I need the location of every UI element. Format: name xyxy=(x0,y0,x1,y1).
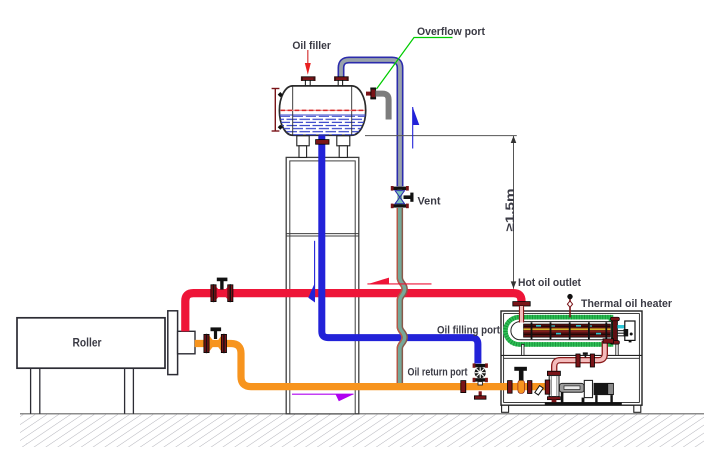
coil baffles xyxy=(531,322,608,339)
pump assembly xyxy=(545,371,622,405)
svg-text:Vent: Vent xyxy=(418,195,441,207)
motor xyxy=(594,383,614,395)
control box xyxy=(624,321,635,342)
heater coil xyxy=(524,324,611,337)
pump inlet top flange xyxy=(547,371,560,375)
heater inlet flange xyxy=(513,302,530,306)
svg-text:Hot oil outlet: Hot oil outlet xyxy=(518,277,581,289)
tank seams xyxy=(292,86,294,135)
orange valve near roller xyxy=(204,327,227,353)
pump vertical casing xyxy=(549,376,559,397)
red pipe valve xyxy=(211,278,233,303)
vent/overflow pipe from tank top (blue outline, gray core) xyxy=(341,60,400,186)
roller body xyxy=(17,311,195,414)
red hot-oil pipe xyxy=(185,293,521,331)
wavy drain pipe below vent valve (brown outline, teal core) xyxy=(397,208,405,386)
ground hatching xyxy=(20,414,704,447)
svg-text:Thermal oil heater: Thermal oil heater xyxy=(581,298,673,310)
vessel support posts xyxy=(522,344,524,355)
heater tube sheet xyxy=(611,317,620,344)
overflow port stub xyxy=(366,92,371,96)
orange pipe flanges inside heater frame xyxy=(508,380,550,394)
pump horizontal body xyxy=(560,383,585,392)
svg-text:Roller: Roller xyxy=(73,337,102,350)
blue down arrow in tower xyxy=(308,241,315,303)
heater vessel insulation (green) xyxy=(505,317,611,344)
level gauge xyxy=(272,89,283,132)
heater vessel shell xyxy=(511,322,612,340)
red flow arrow (left) xyxy=(367,278,431,285)
svg-text:Overflow port: Overflow port xyxy=(417,26,485,38)
tank support left xyxy=(297,136,309,158)
overflow gooseneck pipe (gray) xyxy=(376,94,389,120)
svg-text:≥1.5m: ≥1.5m xyxy=(503,188,517,231)
mid rail xyxy=(501,354,642,356)
sight glass on orange pipe xyxy=(535,386,543,395)
tank top nozzle left (oil filler) xyxy=(301,76,316,86)
vent valve xyxy=(391,186,414,208)
blue up arrow at vent pipe xyxy=(413,107,420,149)
svg-text:Oil filling port: Oil filling port xyxy=(437,325,500,337)
heater inlet pink pipe xyxy=(519,306,524,323)
green leader to overflow port xyxy=(377,38,453,90)
purple flow arrow (right) xyxy=(292,394,354,401)
expansion tank shell xyxy=(278,86,368,136)
element pins (cyan) xyxy=(617,325,626,328)
oil level line (red) xyxy=(281,109,366,111)
dimension line >=1.5m xyxy=(513,136,515,289)
pink pipe flanges xyxy=(576,352,595,367)
oil filler arrow (red) xyxy=(305,50,311,75)
pump supports xyxy=(561,392,564,403)
coupling plate xyxy=(584,380,592,397)
tank bottom flange xyxy=(316,140,329,145)
dimension reference line (tank bottom level) xyxy=(365,135,517,137)
svg-text:Oil return port: Oil return port xyxy=(408,367,468,379)
pump bottom flange xyxy=(547,397,560,400)
tank top nozzle right (to overflow pipe) xyxy=(334,76,349,86)
ground line xyxy=(20,413,704,415)
roller end disc xyxy=(168,311,178,375)
baseplate xyxy=(545,402,622,405)
flange on orange pipe left of filling valve xyxy=(461,381,466,393)
roller legs xyxy=(30,368,32,414)
tower (tank support column) xyxy=(286,157,359,413)
safety valve on heater xyxy=(567,294,572,318)
orange valve inside heater frame xyxy=(514,367,527,394)
heater frame xyxy=(501,311,642,412)
pink pipe (heater outlet to pump) xyxy=(554,341,605,372)
blue pipe from tank to filling valve xyxy=(322,136,478,364)
svg-text:Oil filler: Oil filler xyxy=(292,40,331,52)
roller journal box xyxy=(178,331,195,354)
overflow port flange xyxy=(370,88,376,100)
vessel bottom flange xyxy=(603,339,614,343)
oil filling valve (handwheel) xyxy=(473,363,488,399)
orange return pipe xyxy=(195,344,548,387)
frame feet xyxy=(502,405,509,412)
tank support right xyxy=(337,136,350,158)
